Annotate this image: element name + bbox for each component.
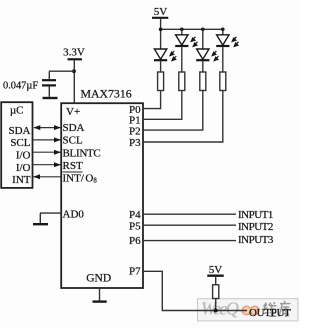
svg-text:P3: P3 bbox=[129, 137, 141, 149]
svg-text:AD0: AD0 bbox=[63, 209, 85, 221]
svg-text:P6: P6 bbox=[129, 235, 141, 247]
svg-text:0.047µF: 0.047µF bbox=[3, 80, 38, 91]
svg-text:INT/O8: INT/O8 bbox=[63, 172, 98, 184]
svg-text:RST: RST bbox=[63, 160, 83, 172]
svg-text:INPUT2: INPUT2 bbox=[238, 221, 273, 233]
svg-text:µC: µC bbox=[10, 105, 24, 117]
svg-text:P4: P4 bbox=[129, 209, 141, 221]
svg-text:SCL: SCL bbox=[10, 137, 30, 149]
svg-text:I/O: I/O bbox=[16, 150, 31, 162]
svg-text:3.3V: 3.3V bbox=[63, 47, 85, 59]
svg-text:5V: 5V bbox=[154, 6, 168, 18]
svg-text:SDA: SDA bbox=[8, 125, 30, 137]
svg-text:P7: P7 bbox=[129, 265, 141, 277]
svg-text:GND: GND bbox=[86, 272, 111, 284]
svg-text:5V: 5V bbox=[209, 264, 223, 276]
svg-text:P5: P5 bbox=[129, 221, 141, 233]
svg-text:INPUT1: INPUT1 bbox=[238, 209, 273, 221]
svg-text:V+: V+ bbox=[66, 106, 80, 118]
svg-text:INPUT3: INPUT3 bbox=[238, 234, 274, 246]
svg-text:SCL: SCL bbox=[63, 134, 83, 146]
svg-text:P2: P2 bbox=[129, 126, 141, 138]
svg-text:MAX7316: MAX7316 bbox=[81, 87, 132, 101]
svg-text:I/O: I/O bbox=[16, 162, 31, 174]
svg-text:BLINTC: BLINTC bbox=[63, 147, 101, 159]
svg-text:WeeQ: WeeQ bbox=[201, 299, 239, 319]
svg-text:SDA: SDA bbox=[63, 122, 85, 134]
svg-text:INT: INT bbox=[12, 174, 31, 186]
svg-text:OUTPUT: OUTPUT bbox=[249, 307, 291, 319]
